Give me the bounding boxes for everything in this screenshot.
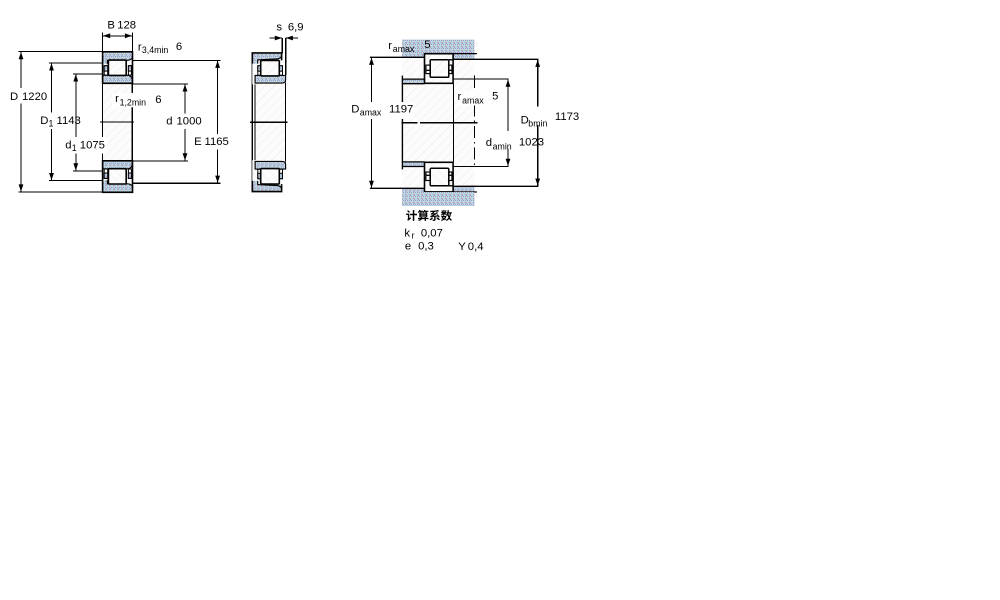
svg-text:d: d [65, 139, 71, 151]
section border [103, 52, 133, 84]
dim B 128 [102, 33, 104, 52]
cage left [426, 65, 430, 74]
outer ring [103, 52, 133, 64]
dim E 1165 [133, 59, 221, 61]
svg-text:amax: amax [360, 108, 382, 118]
svg-text:6: 6 [176, 41, 182, 53]
svg-text:1023: 1023 [519, 136, 544, 148]
svg-text:r: r [115, 93, 119, 105]
svg-text:1: 1 [72, 143, 77, 153]
svg-text:amax: amax [393, 44, 415, 54]
shaft strip [103, 83, 132, 161]
svg-text:Y: Y [458, 241, 466, 253]
cage right [280, 66, 283, 75]
svg-text:s: s [276, 21, 282, 33]
inner ring face lines [254, 75, 256, 169]
svg-text:1000: 1000 [177, 116, 202, 128]
shaft seat step face vertical [452, 84, 454, 163]
svg-text:1: 1 [49, 119, 54, 129]
centerline right view [401, 122, 417, 124]
svg-text:D: D [351, 104, 359, 116]
svg-text:3,4min: 3,4min [142, 45, 169, 55]
svg-text:0,3: 0,3 [418, 241, 434, 253]
svg-text:e: e [405, 241, 411, 253]
svg-text:6: 6 [155, 94, 161, 106]
housing right leg [453, 53, 474, 59]
dim D 1220 [19, 51, 103, 53]
svg-text:k: k [404, 227, 410, 239]
svg-text:amax: amax [462, 96, 484, 106]
dim d1 1075 [73, 73, 103, 75]
title 计算系数 (calculation factors) [406, 210, 452, 221]
dim Damax 1197 [370, 187, 402, 189]
housing bottom block fill [402, 192, 474, 206]
dim damin 1023 [507, 79, 509, 166]
svg-text:D: D [10, 91, 18, 103]
label r1,2min 6 [112, 93, 163, 107]
svg-text:r: r [388, 40, 392, 52]
svg-text:bmin: bmin [528, 119, 547, 129]
centerline middle view [250, 121, 287, 123]
svg-text:1,2min: 1,2min [120, 97, 147, 107]
outer ring silhouette line [251, 53, 253, 192]
shaft shoulder face vertical [401, 76, 403, 170]
svg-text:d: d [486, 137, 492, 149]
svg-text:5: 5 [492, 91, 498, 103]
svg-text:amin: amin [493, 141, 512, 151]
centerline left view [100, 121, 134, 123]
left view bottom bearing section (mirrored) [0, 161, 133, 244]
outer ring [252, 53, 281, 64]
svg-text:r: r [412, 231, 415, 241]
svg-text:1197: 1197 [389, 104, 413, 116]
svg-text:0,07: 0,07 [421, 227, 443, 239]
cage right [128, 66, 131, 75]
svg-text:E: E [194, 136, 202, 148]
svg-text:1075: 1075 [80, 139, 105, 151]
housing shoulder line left + Damax ext [370, 56, 425, 58]
dim s 6,9 [281, 38, 283, 53]
outer ring flange edge lines [107, 58, 132, 64]
shaft surface line right (damin ext) [453, 78, 508, 80]
svg-text:0,4: 0,4 [468, 241, 484, 253]
roller [430, 60, 449, 78]
label ramax 5 middle [456, 91, 487, 106]
svg-text:1173: 1173 [555, 111, 579, 123]
dim Dbmin 1173 [518, 107, 549, 126]
cage right [449, 65, 452, 74]
housing band [402, 40, 474, 54]
svg-text:6,9: 6,9 [288, 21, 304, 33]
bearing outline box [425, 54, 454, 84]
svg-text:1143: 1143 [57, 115, 81, 127]
housing left leg [402, 53, 425, 57]
right view mirrored half [370, 162, 539, 206]
left view top bearing section group [0, 0, 133, 83]
section hatch background [402, 40, 474, 206]
cage left [258, 66, 261, 75]
svg-text:B: B [107, 20, 115, 32]
svg-text:r: r [458, 91, 462, 103]
housing bore line right [453, 53, 477, 55]
right view half group [370, 40, 539, 84]
middle view bottom section (mirrored) [252, 160, 285, 192]
shaft strip top line [403, 78, 425, 80]
middle view top section group [252, 53, 285, 85]
bore strip [256, 83, 285, 161]
svg-text:128: 128 [117, 20, 136, 32]
dim D1 1143 [49, 62, 103, 64]
svg-text:5: 5 [424, 39, 430, 51]
svg-text:d: d [166, 116, 172, 128]
dim d 1000 [133, 83, 189, 85]
roller [108, 60, 126, 75]
flange step line [449, 59, 453, 61]
inner ring [103, 75, 133, 83]
shaft strip bottom line [403, 83, 425, 85]
housing shoulder line right + Dbmin ext [453, 58, 538, 60]
svg-text:1220: 1220 [22, 91, 47, 103]
svg-text:D: D [40, 115, 48, 127]
shaft break dash-dot line [474, 76, 476, 88]
svg-text:1165: 1165 [205, 136, 229, 148]
cage left [104, 66, 108, 75]
shaft shoulder strip [403, 79, 425, 84]
roller [261, 60, 280, 76]
outer ring borders [252, 53, 281, 64]
inner ring [255, 75, 286, 83]
